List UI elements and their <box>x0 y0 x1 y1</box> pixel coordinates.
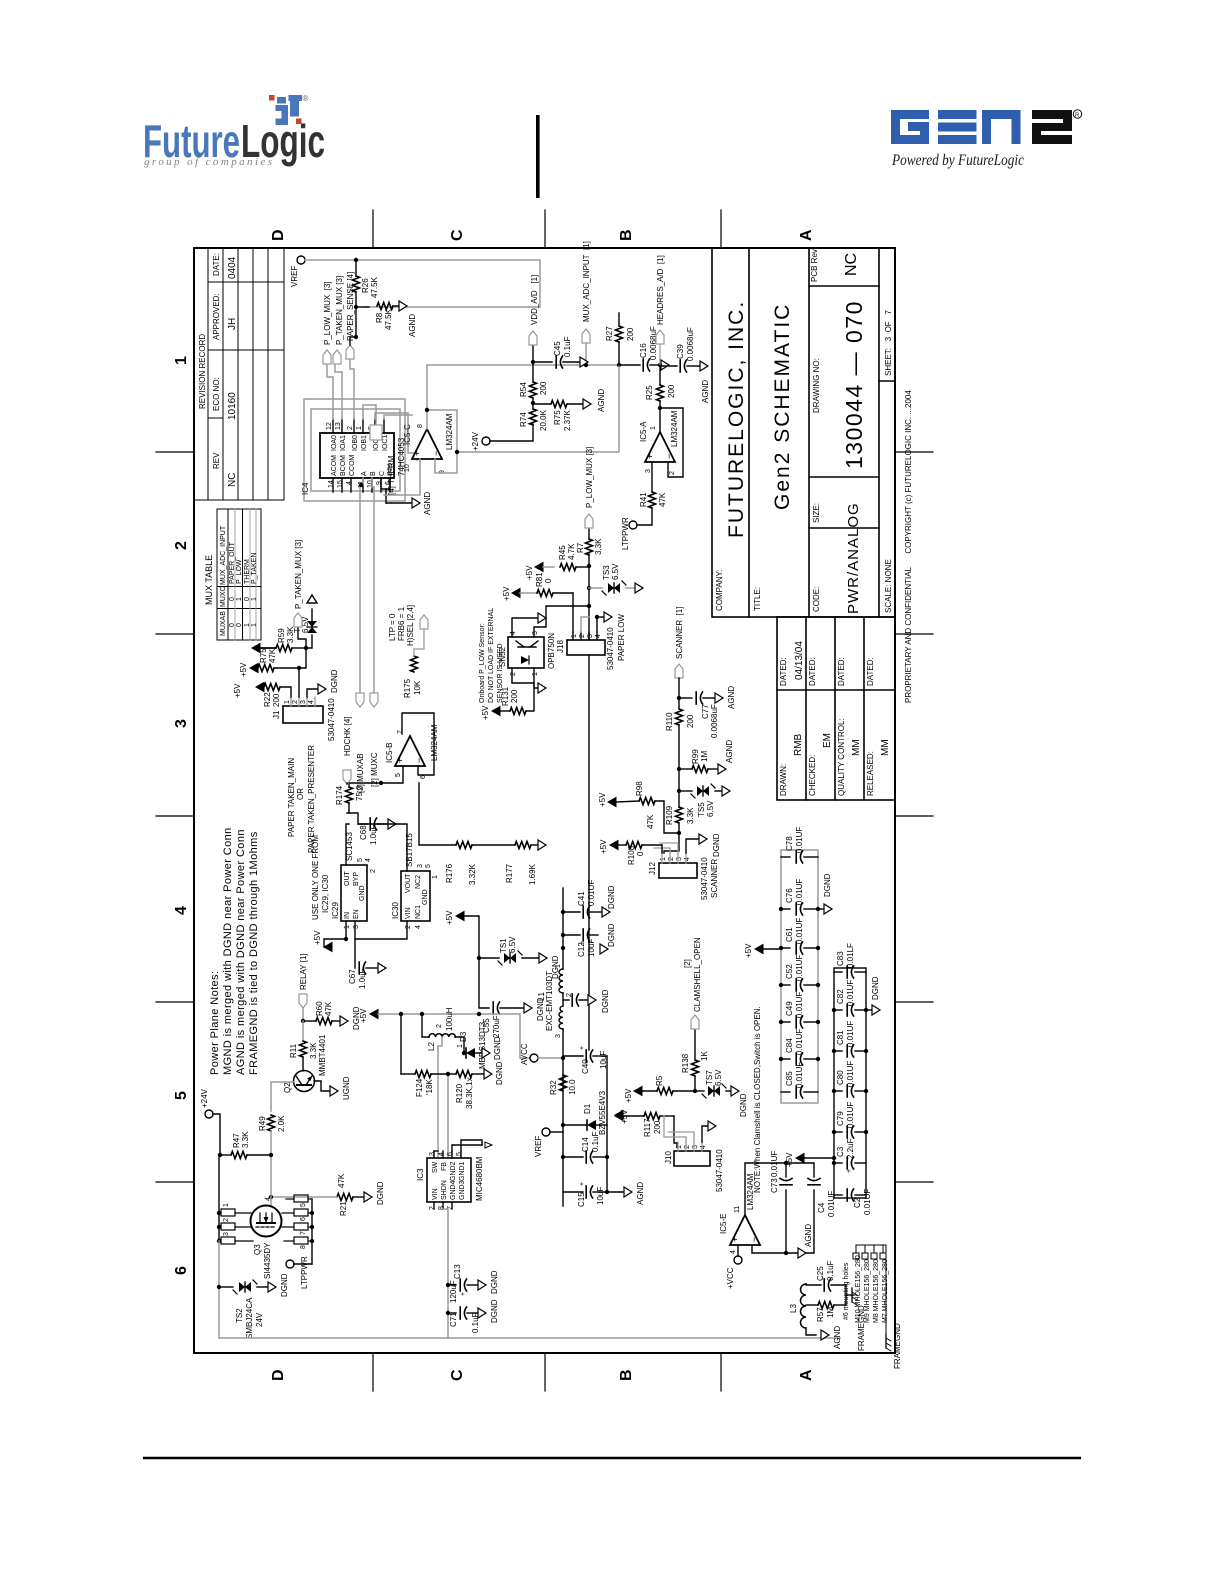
capacitor C83 <box>834 966 866 978</box>
svg-text:6.5V: 6.5V <box>508 936 517 953</box>
svg-text:DGND: DGND <box>490 1270 499 1294</box>
svg-text:#6 mounting holes: #6 mounting holes <box>843 1262 850 1320</box>
bank rails <box>781 850 818 1103</box>
svg-text:R25: R25 <box>645 385 654 400</box>
mosfet Q3 SI4435DY <box>251 1206 282 1237</box>
zone letters (sides) <box>270 229 815 1381</box>
svg-text:3: 3 <box>587 634 594 638</box>
svg-text:AGND: AGND <box>701 380 710 403</box>
ground C13 <box>478 1280 486 1290</box>
resistor R8 <box>377 303 393 310</box>
svg-text:SHEET: 3 OF 7: SHEET: 3 OF 7 <box>884 310 893 376</box>
svg-text:200: 200 <box>272 693 281 707</box>
wire IOA0 to P_LOW_MUX flag <box>327 359 417 460</box>
capacitor C25 <box>824 1279 830 1291</box>
svg-text:R22: R22 <box>263 692 272 707</box>
flag P_TAKEN_MUX <box>333 350 341 364</box>
bank rails 2 <box>834 968 866 1198</box>
svg-text:53047-0410: 53047-0410 <box>700 857 709 900</box>
svg-text:04/13/04: 04/13/04 <box>794 641 805 680</box>
svg-text:FRAMEGND: FRAMEGND <box>893 1323 902 1369</box>
svg-text:'18K: '18K <box>425 1079 434 1095</box>
junction dots bank1 <box>779 907 783 1061</box>
svg-text:Powered by FutureLogic: Powered by FutureLogic <box>891 152 1024 169</box>
svg-text:DGND: DGND <box>712 833 721 857</box>
svg-text:MUX TABLE: MUX TABLE <box>204 555 214 605</box>
svg-text:B: B <box>370 471 377 476</box>
MUXC flag <box>370 693 378 707</box>
svg-text:C52: C52 <box>785 964 794 979</box>
inductor L2 <box>429 1034 455 1037</box>
svg-text:C80: C80 <box>836 1070 845 1085</box>
wire outer routing rect around IC4 <box>304 399 405 501</box>
svg-text:TS5: TS5 <box>697 802 706 817</box>
inductor L1 EXC-EMT103DT <box>559 969 563 1029</box>
capacitor C80 <box>834 1085 866 1097</box>
power +5V R81 <box>512 589 520 598</box>
svg-text:NOTE:When Clamshell is CLOSED,: NOTE:When Clamshell is CLOSED,Switch is … <box>753 1006 762 1193</box>
zone numbers (top) <box>173 356 190 1275</box>
sheet frame <box>194 248 895 1353</box>
terminal VREF2 <box>542 1128 550 1136</box>
AVCC bus <box>562 1029 564 1206</box>
GEN2 logo <box>891 110 1021 144</box>
svg-text:IC29, IC30: IC29, IC30 <box>321 874 330 913</box>
resistor R117 <box>644 1113 660 1120</box>
op-amp IC5-C <box>412 429 442 459</box>
svg-text:BYP: BYP <box>353 872 360 886</box>
ground TS1 <box>539 953 547 963</box>
cap at L1 pin2 <box>563 999 569 1001</box>
svg-text:C76: C76 <box>785 888 794 903</box>
capacitor C40 <box>586 1050 592 1062</box>
capacitor C45 <box>533 361 552 363</box>
svg-text:OR: OR <box>296 788 305 800</box>
svg-text:3: 3 <box>300 700 307 704</box>
svg-text:F124: F124 <box>415 1078 424 1097</box>
svg-text:1: 1 <box>356 426 363 430</box>
svg-text:MIC4680BM: MIC4680BM <box>475 1156 484 1201</box>
svg-text:IC5-C: IC5-C <box>403 424 412 445</box>
svg-text:NC2: NC2 <box>415 875 422 889</box>
resistor R54 <box>530 382 537 398</box>
svg-text:0.01UF: 0.01UF <box>795 992 804 1018</box>
svg-text:Power Plane Notes:: Power Plane Notes: <box>209 971 221 1075</box>
wire pin6 loop <box>402 713 434 775</box>
svg-text:DGND: DGND <box>601 989 610 1013</box>
svg-text:5: 5 <box>300 1203 307 1207</box>
svg-text:R45: R45 <box>558 545 567 560</box>
wire pin5 chain <box>349 766 403 787</box>
svg-text:DGND: DGND <box>280 1273 289 1297</box>
svg-text:+: + <box>579 1182 586 1186</box>
svg-text:53047-0410: 53047-0410 <box>327 698 336 741</box>
ground R177 <box>538 840 546 850</box>
svg-text:MUXAB: MUXAB <box>220 611 227 636</box>
svg-text:10uF: 10uF <box>587 939 596 957</box>
svg-text:AVCC: AVCC <box>520 1043 529 1065</box>
svg-text:1: 1 <box>173 356 190 365</box>
svg-text:C82: C82 <box>836 989 845 1004</box>
svg-text:IC29: IC29 <box>331 902 340 919</box>
svg-text:C14: C14 <box>581 1137 590 1152</box>
svg-text:D: D <box>270 229 287 241</box>
wire feedback pin2 <box>660 408 683 477</box>
ground AGND C16 <box>661 360 669 370</box>
svg-text:C73: C73 <box>770 1178 779 1193</box>
svg-text:DGND: DGND <box>739 1093 748 1117</box>
framegnd mounting <box>886 1334 891 1351</box>
svg-text:1: 1 <box>344 925 351 929</box>
svg-text:VIN: VIN <box>405 907 412 919</box>
node TS3 <box>587 586 591 590</box>
svg-text:120uF: 120uF <box>449 1280 458 1303</box>
svg-text:0.1uF: 0.1uF <box>826 1260 835 1281</box>
TVS TS2 <box>219 1286 233 1288</box>
svg-text:3: 3 <box>645 469 652 473</box>
svg-text:3: 3 <box>676 857 683 861</box>
svg-text:FRAMEGND is tied to DGND throu: FRAMEGND is tied to DGND through 1Mohms <box>248 831 260 1075</box>
svg-text:R: R <box>1075 113 1080 119</box>
terminal AVCC <box>530 1054 538 1062</box>
resistor R26 <box>353 276 360 292</box>
ground TS3 <box>635 583 643 593</box>
svg-text:TS1: TS1 <box>499 938 508 953</box>
capacitor C71 <box>448 1312 456 1314</box>
svg-text:15: 15 <box>337 480 344 488</box>
svg-text:270uF: 270uF <box>492 1015 501 1038</box>
svg-text:C67: C67 <box>348 969 357 984</box>
svg-text:0.0068uF: 0.0068uF <box>710 704 719 738</box>
svg-text:5: 5 <box>456 1152 463 1156</box>
wire +5V rail <box>378 1014 530 1058</box>
svg-text:C77: C77 <box>701 704 710 719</box>
svg-text:6.5V: 6.5V <box>611 563 620 580</box>
svg-text:MM: MM <box>851 739 862 756</box>
svg-text:R117: R117 <box>643 1118 652 1137</box>
regulator IC30 SB17B15 <box>401 871 430 921</box>
svg-text:7: 7 <box>300 1231 307 1235</box>
bottom bus AGND <box>606 1056 608 1192</box>
svg-text:USE ONLY ONE FROM: USE ONLY ONE FROM <box>311 835 320 920</box>
resistor R138 <box>694 1076 696 1091</box>
svg-text:C49: C49 <box>785 1001 794 1016</box>
svg-text:3: 3 <box>692 1145 699 1149</box>
ground sensor pin4 <box>538 613 546 623</box>
svg-text:1: 1 <box>571 634 578 638</box>
svg-text:GND2: GND2 <box>450 1161 457 1181</box>
note text sensor <box>479 608 504 703</box>
svg-text:DGND: DGND <box>330 669 339 693</box>
resistor R49 <box>268 1115 275 1131</box>
svg-text:R59: R59 <box>277 628 286 643</box>
svg-text:C79: C79 <box>836 1111 845 1126</box>
svg-text:+5V: +5V <box>744 943 753 958</box>
svg-text:THERM: THERM <box>244 559 251 584</box>
svg-text:DO NOT LOAD IF EXTERNAL: DO NOT LOAD IF EXTERNAL <box>488 608 495 703</box>
svg-text:R74: R74 <box>519 412 528 427</box>
svg-text:DGND: DGND <box>607 923 616 947</box>
resistor R177 <box>472 844 515 846</box>
ground J18 pin4 <box>595 615 599 619</box>
wire sensor wiring <box>512 606 589 711</box>
svg-text:1: 1 <box>251 597 258 601</box>
svg-text:3: 3 <box>555 1034 562 1038</box>
+5V R131 <box>492 707 500 716</box>
svg-text:2: 2 <box>684 1145 691 1149</box>
resistor R75 pullup <box>258 665 274 672</box>
svg-text:14: 14 <box>328 480 335 488</box>
power +5V R75b <box>250 664 258 673</box>
capacitor C77 <box>679 697 692 699</box>
photo transistor inside <box>516 641 538 647</box>
svg-text:1M: 1M <box>700 751 709 762</box>
svg-text:0.01UF: 0.01UF <box>795 1029 804 1055</box>
svg-text:4: 4 <box>415 925 422 929</box>
svg-text:HEADRES_A/D [1]: HEADRES_A/D [1] <box>656 255 665 325</box>
svg-text:GND: GND <box>422 889 429 905</box>
terminal +24V input <box>205 1110 213 1118</box>
THERM stub box <box>370 425 382 440</box>
svg-text:IC5-E: IC5-E <box>719 1214 728 1234</box>
svg-text:8: 8 <box>300 1245 307 1249</box>
svg-text:BZV55E4V3: BZV55E4V3 <box>598 1090 607 1135</box>
power +5V R22 <box>256 683 264 692</box>
svg-text:®: ® <box>303 94 309 103</box>
svg-text:C15: C15 <box>577 1192 586 1207</box>
wire pin10 + input <box>384 459 420 495</box>
capacitor C78 <box>781 851 818 863</box>
svg-text:+5V: +5V <box>599 839 608 854</box>
svg-text:C: C <box>379 471 386 476</box>
svg-text:DATED:: DATED: <box>779 657 788 686</box>
bottom rule <box>143 1457 1081 1460</box>
svg-text:IOA0: IOA0 <box>331 435 338 451</box>
svg-text:1: 1 <box>676 1145 683 1149</box>
svg-text:47K: 47K <box>337 1173 346 1188</box>
svg-text:DGND: DGND <box>352 1006 361 1030</box>
svg-text:0.01UF: 0.01UF <box>795 827 804 853</box>
svg-text:0.01UF: 0.01UF <box>846 1061 855 1087</box>
svg-text:2: 2 <box>429 1206 436 1210</box>
ground C71 <box>478 1308 486 1318</box>
wire relay to R60 node <box>302 1008 304 1021</box>
svg-text:1: 1 <box>660 857 667 861</box>
svg-text:GND: GND <box>359 885 366 901</box>
svg-text:0.1uF: 0.1uF <box>591 1131 600 1152</box>
svg-text:IOC1: IOC1 <box>382 435 389 451</box>
resistor R108 <box>626 842 642 849</box>
svg-text:DGND: DGND <box>490 1299 499 1323</box>
svg-text:1: 1 <box>251 623 258 627</box>
svg-text:+5V: +5V <box>525 565 534 580</box>
svg-text:FRB6 = 1: FRB6 = 1 <box>397 606 406 641</box>
svg-text:R26: R26 <box>361 278 370 293</box>
flag HEADRES_A/D <box>656 330 664 344</box>
svg-text:R54: R54 <box>519 382 528 397</box>
svg-text:[2] MUXC: [2] MUXC <box>370 752 379 787</box>
svg-text:3.32K: 3.32K <box>468 863 477 885</box>
svg-text:10K: 10K <box>413 680 422 695</box>
svg-text:53047-0410: 53047-0410 <box>715 1149 724 1192</box>
power +5V bank2 <box>796 1154 804 1163</box>
svg-text:J10: J10 <box>664 1151 673 1164</box>
svg-text:13: 13 <box>335 422 342 430</box>
svg-text:4: 4 <box>265 1197 272 1201</box>
svg-text:4.7K: 4.7K <box>567 543 576 560</box>
svg-text:2: 2 <box>510 672 517 676</box>
ground AGND <box>399 301 407 311</box>
svg-text:5: 5 <box>395 773 402 777</box>
svg-text:PAPER TAKEN_MAIN: PAPER TAKEN_MAIN <box>287 758 296 837</box>
svg-text:3.3K: 3.3K <box>241 1131 250 1148</box>
op-amp IC5-B <box>395 736 425 766</box>
svg-text:130044 — 070: 130044 — 070 <box>841 300 867 469</box>
svg-text:+VCC: +VCC <box>726 1267 735 1289</box>
svg-text:IOB1: IOB1 <box>361 435 368 451</box>
svg-text:[2]: [2] <box>683 959 692 968</box>
svg-text:200: 200 <box>653 1120 662 1134</box>
flag SCANNER <box>675 664 683 678</box>
center divider bar <box>536 115 540 198</box>
svg-text:DGND: DGND <box>607 885 616 909</box>
svg-text:R41: R41 <box>639 492 648 507</box>
svg-text:C71: C71 <box>449 1312 458 1327</box>
svg-text:R60: R60 <box>315 1001 324 1016</box>
svg-text:IC30: IC30 <box>391 902 400 919</box>
flag MUX_ADC_INPUT <box>582 329 590 343</box>
flag P_LOW_MUX <box>323 350 331 364</box>
wire pin9 feedback loop <box>427 410 457 473</box>
wire L2 bottom to D3 node <box>455 1037 464 1053</box>
Q3 pin boxes top <box>219 1209 253 1244</box>
ground R60 <box>340 1016 348 1026</box>
svg-text:SMBJ24CA: SMBJ24CA <box>245 1297 254 1339</box>
capacitor C55 polarized <box>493 1002 499 1014</box>
svg-text:+5V: +5V <box>481 705 490 720</box>
svg-text:10160: 10160 <box>227 392 238 420</box>
svg-text:R99: R99 <box>691 749 700 764</box>
wire VREF routing U <box>305 260 540 307</box>
connector J1 <box>283 706 323 723</box>
svg-text:AGND: AGND <box>636 1182 645 1205</box>
svg-text:SHDN: SHDN <box>441 1180 448 1200</box>
zone ticks top <box>156 210 933 1391</box>
zone ticks left/right <box>372 1353 374 1391</box>
resistor R25 <box>657 385 664 401</box>
svg-text:6: 6 <box>173 1266 190 1275</box>
resistor R120 <box>448 1073 456 1075</box>
wire output to node <box>659 408 661 432</box>
svg-text:10.0: 10.0 <box>568 1079 577 1095</box>
svg-text:0.01UF: 0.01UF <box>795 918 804 944</box>
svg-text:DRAWING NO:: DRAWING NO: <box>812 358 821 413</box>
ground C45 (unlabeled) <box>580 357 588 367</box>
svg-text:47.5K: 47.5K <box>384 308 393 330</box>
svg-text:L3: L3 <box>789 1304 798 1313</box>
svg-text:FB: FB <box>441 1162 448 1171</box>
svg-text:0.0068uF: 0.0068uF <box>686 327 695 361</box>
inductor L3 <box>801 1284 807 1328</box>
svg-text:4: 4 <box>700 1145 707 1149</box>
LED inside <box>521 656 529 664</box>
svg-text:R110: R110 <box>665 712 674 731</box>
svg-text:0: 0 <box>229 597 236 601</box>
svg-text:4: 4 <box>438 1152 445 1156</box>
svg-text:0.1uF: 0.1uF <box>563 336 572 357</box>
ground DGND bank1 <box>818 908 824 910</box>
svg-text:LM324AM: LM324AM <box>746 1173 755 1210</box>
svg-text:APPROVED:: APPROVED: <box>212 293 221 340</box>
svg-text:C83: C83 <box>836 951 845 966</box>
svg-text:2.0K: 2.0K <box>277 1115 286 1132</box>
resistor R21 <box>337 1194 353 1201</box>
svg-text:IC3: IC3 <box>416 1168 425 1181</box>
svg-text:LM324AM: LM324AM <box>670 410 679 447</box>
svg-text:47K: 47K <box>658 492 667 507</box>
pin stub wires <box>333 419 390 492</box>
svg-text:47K: 47K <box>268 648 277 663</box>
svg-text:20.0K: 20.0K <box>539 409 548 431</box>
svg-text:FUTURELOGIC, INC.: FUTURELOGIC, INC. <box>725 300 748 538</box>
svg-text:J12: J12 <box>648 862 657 875</box>
svg-text:PAPER_OUT: PAPER_OUT <box>229 541 236 584</box>
svg-text:200: 200 <box>667 384 676 398</box>
ground C41 <box>602 907 610 917</box>
svg-text:200: 200 <box>626 327 635 341</box>
svg-text:R27: R27 <box>605 326 614 341</box>
TVS TS5 <box>679 790 692 792</box>
resistor R27 <box>616 326 623 342</box>
svg-text:3.3K: 3.3K <box>309 1042 318 1059</box>
resistor R174 <box>346 787 353 803</box>
svg-text:47K: 47K <box>646 814 655 829</box>
svg-text:R175: R175 <box>403 678 412 698</box>
svg-text:R81: R81 <box>535 572 544 587</box>
wire R54 to VDD flag <box>532 345 534 382</box>
drawn/checked section <box>777 617 895 800</box>
ground TS2 <box>268 1282 276 1292</box>
svg-text:24V: 24V <box>255 1312 264 1327</box>
svg-text:D3: D3 <box>459 1031 468 1042</box>
svg-text:6: 6 <box>300 1217 307 1221</box>
svg-text:4: 4 <box>346 481 353 485</box>
svg-text:P_TAKEN_MUX [3]: P_TAKEN_MUX [3] <box>335 276 344 345</box>
svg-text:+24V: +24V <box>471 431 480 451</box>
capacitor C4 <box>808 1178 820 1184</box>
svg-text:R108: R108 <box>627 845 636 865</box>
svg-text:TITLE:: TITLE: <box>753 587 762 611</box>
svg-text:12: 12 <box>326 422 333 430</box>
svg-text:1: 1 <box>650 426 657 430</box>
svg-text:2: 2 <box>668 857 675 861</box>
power +5V D1 <box>615 1111 623 1120</box>
svg-text:LTPPWR: LTPPWR <box>621 517 630 550</box>
svg-text:0404: 0404 <box>227 256 238 279</box>
opto sensor SN52 OPB750N <box>508 637 544 668</box>
MUXC flag wire <box>372 478 374 693</box>
op-amp IC5-E <box>730 1215 760 1245</box>
FutureLogic icon <box>269 94 309 125</box>
svg-text:38.3K,1x: 38.3K,1x <box>465 1077 474 1109</box>
svg-text:PAPER_SENSE [4]: PAPER_SENSE [4] <box>346 272 355 341</box>
resistor R60 <box>303 1020 316 1022</box>
ground R21 <box>364 1192 372 1202</box>
svg-text:NC: NC <box>227 473 238 487</box>
ground R120 <box>484 1069 492 1079</box>
svg-text:TS2: TS2 <box>235 1308 244 1323</box>
svg-text:MMBT4401: MMBT4401 <box>318 1034 327 1076</box>
